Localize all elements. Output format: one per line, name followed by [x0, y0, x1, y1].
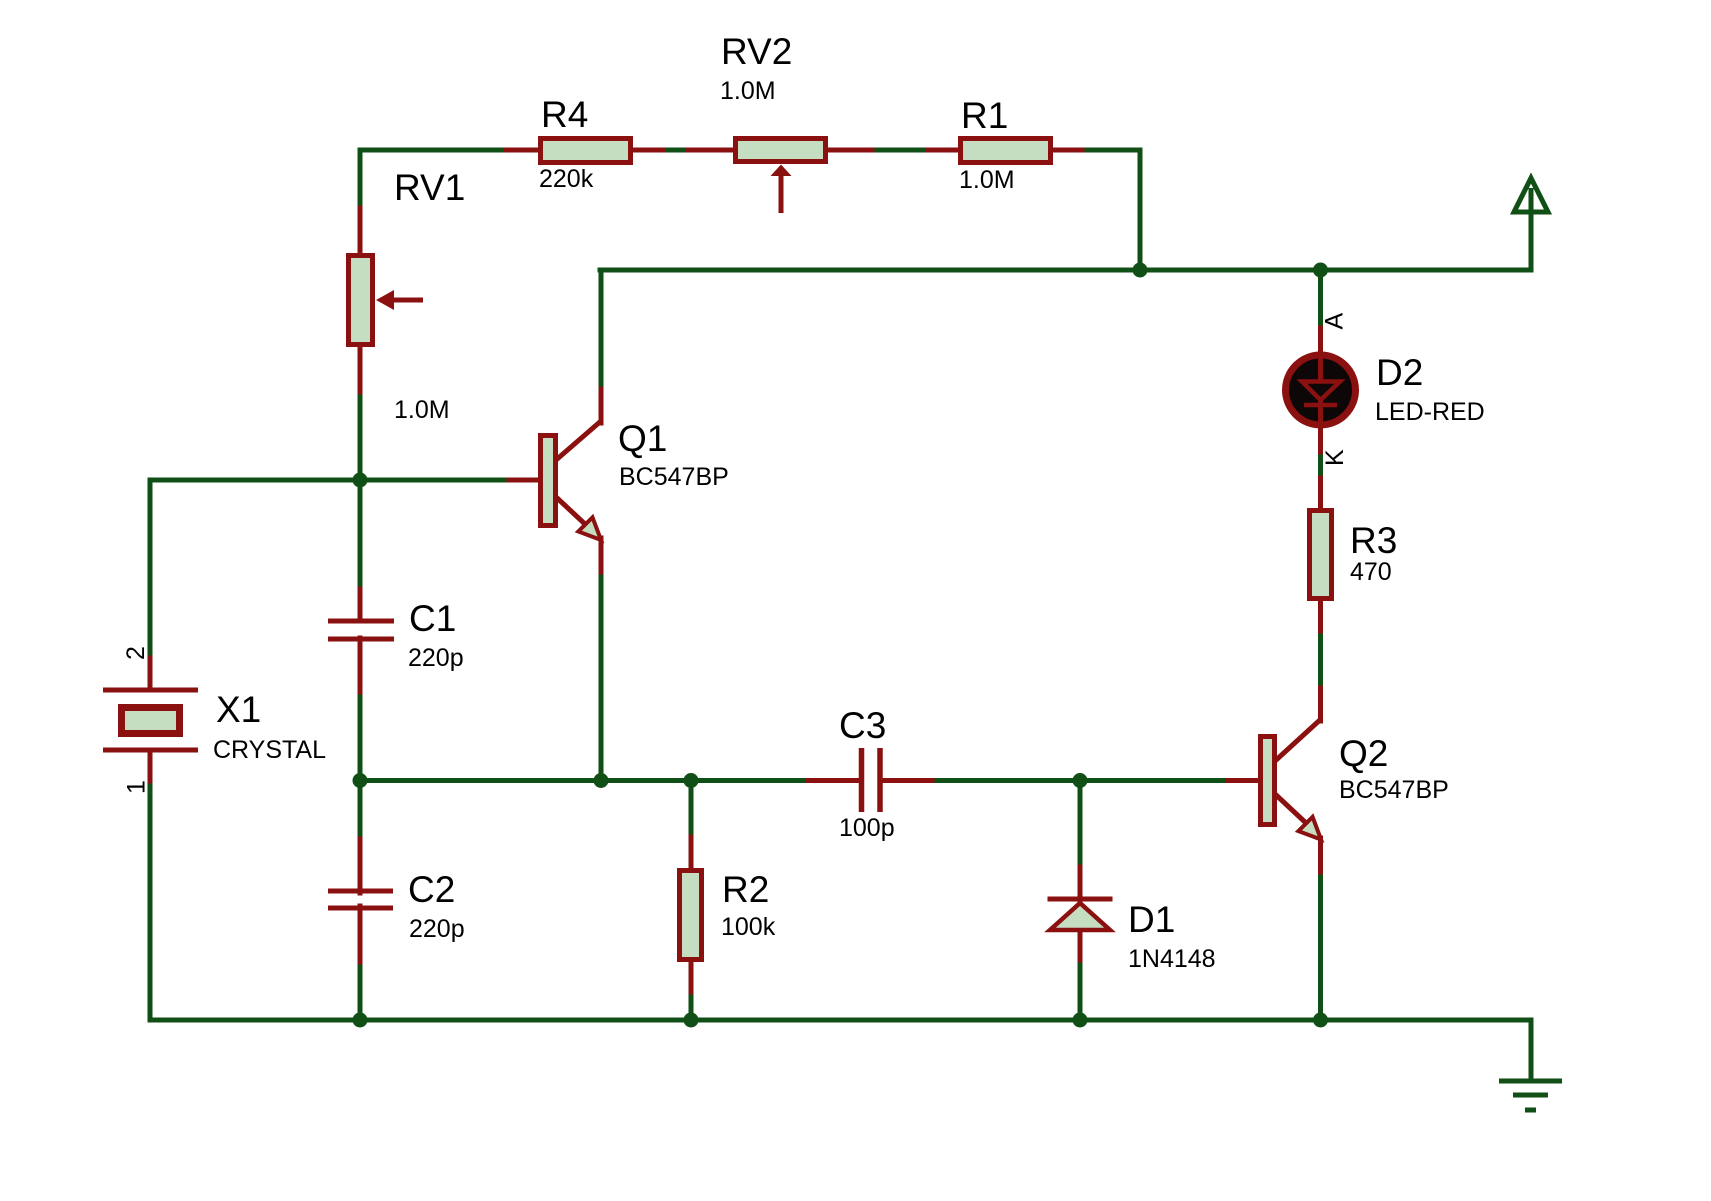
transistor Q2 [1261, 719, 1322, 840]
svg-text:RV2: RV2 [721, 31, 792, 72]
svg-text:1N4148: 1N4148 [1128, 945, 1216, 973]
labels: names [216, 31, 1423, 940]
pin R4 right [631, 148, 663, 153]
wire Q1 collector column [599, 270, 604, 419]
node D1 top junction [1073, 773, 1088, 788]
svg-text:C3: C3 [839, 705, 886, 746]
pin R2 top [689, 837, 694, 872]
node C1 bottom junction [353, 773, 368, 788]
wire base rail [150, 478, 539, 483]
pin RV1 top [358, 208, 363, 257]
svg-text:100k: 100k [721, 913, 776, 941]
svg-text:C1: C1 [409, 598, 456, 639]
wire R3 to Q2 [1318, 601, 1323, 717]
pin D2 cathode / R3 top [1318, 424, 1323, 452]
ground symbol [1499, 1081, 1562, 1110]
pin Q2 emitter stub [1318, 838, 1323, 872]
pin R1 right [1051, 148, 1082, 153]
wire LED top [1318, 270, 1323, 354]
node Q2 emitter junction [1313, 1013, 1328, 1028]
node D1 bottom junction [1073, 1013, 1088, 1028]
LED D2 [1286, 354, 1356, 426]
wire X1 column lower [148, 779, 153, 1020]
wire Q2 emitter column [1318, 839, 1323, 1020]
wire R1 drop [1138, 150, 1143, 270]
wire X1 column upper [148, 480, 153, 660]
svg-text:1: 1 [123, 780, 151, 794]
pin R3 bottom [1318, 599, 1323, 631]
wire R2 column [689, 780, 694, 1020]
wire Q1 emitter column [599, 540, 604, 780]
crystal X1 [103, 690, 198, 750]
wire C1 C2 column upper [358, 480, 363, 619]
pin R1 left [928, 148, 962, 153]
node LED top junction [1313, 263, 1328, 278]
svg-text:BC547BP: BC547BP [1339, 776, 1449, 804]
labels: values [213, 77, 1485, 973]
svg-text:K: K [1321, 449, 1349, 466]
resistor R2 [680, 871, 702, 960]
svg-text:R4: R4 [541, 94, 588, 135]
capacitor C1 [328, 621, 394, 639]
red pin stubs [150, 150, 1321, 992]
wire second rail [600, 268, 1531, 273]
wire LED to R3 [1318, 426, 1323, 508]
wire power stem [1529, 190, 1534, 270]
node C2 bottom junction [353, 1013, 368, 1028]
pin Q1 base [509, 478, 540, 483]
svg-text:BC547BP: BC547BP [619, 463, 729, 491]
wire RV1 column [358, 150, 363, 480]
svg-text:1.0M: 1.0M [394, 396, 450, 424]
wire C1 C2 column lower [358, 910, 363, 1020]
pin C2 top [358, 839, 363, 893]
svg-text:2: 2 [122, 646, 150, 660]
pin D1 top [1078, 867, 1083, 902]
svg-text:R3: R3 [1350, 520, 1397, 561]
pin RV2 left [688, 148, 737, 153]
svg-text:100p: 100p [839, 814, 895, 842]
node RV1/base junction [353, 473, 368, 488]
svg-text:1.0M: 1.0M [720, 77, 776, 105]
potentiometer RV2 [736, 139, 826, 214]
wire D1 column [1078, 780, 1083, 1020]
pin X1 bottom [148, 750, 153, 781]
wire C1 C2 column middle [358, 641, 363, 889]
potentiometer RV1 [349, 256, 424, 345]
node R2 bottom junction [684, 1013, 699, 1028]
resistor R4 [541, 139, 631, 163]
pin RV2 right [826, 148, 872, 153]
pin C3 right [880, 778, 932, 783]
power symbol arrow [1514, 178, 1548, 212]
node R2 top junction [684, 773, 699, 788]
pin Q2 base [1228, 778, 1260, 783]
pin C1 bottom [358, 638, 363, 692]
svg-text:C2: C2 [408, 869, 455, 910]
svg-text:220p: 220p [408, 644, 464, 672]
svg-text:X1: X1 [216, 689, 261, 730]
pin C3 left [808, 778, 861, 783]
resistor R1 [961, 139, 1051, 163]
capacitor C3 [862, 748, 881, 812]
pin RV1 bottom [358, 345, 363, 392]
transistor Q1 [541, 421, 602, 540]
wire mid rail left [360, 778, 858, 783]
svg-text:D2: D2 [1376, 352, 1423, 393]
svg-text:R1: R1 [961, 95, 1008, 136]
svg-text:R2: R2 [722, 869, 769, 910]
pin D2 anode [1318, 328, 1323, 356]
capacitor C2 [328, 891, 393, 908]
svg-text:LED-RED: LED-RED [1375, 398, 1485, 426]
svg-text:Q1: Q1 [618, 418, 667, 459]
wire top rail [360, 148, 1140, 153]
wire ground stem [1529, 1020, 1534, 1081]
svg-text:CRYSTAL: CRYSTAL [213, 736, 326, 764]
pin Q1 emitter stub [599, 538, 604, 572]
svg-text:470: 470 [1350, 558, 1392, 586]
svg-text:1.0M: 1.0M [959, 166, 1015, 194]
svg-text:220p: 220p [409, 915, 465, 943]
wire mid rail right [883, 778, 1258, 783]
pin X1 top [148, 658, 153, 690]
pin R2 bottom [689, 960, 694, 992]
svg-text:RV1: RV1 [394, 167, 465, 208]
svg-text:220k: 220k [539, 165, 594, 193]
svg-text:A: A [1321, 313, 1349, 330]
wire bottom rail [150, 1018, 1531, 1023]
pin Q1 collector stub [599, 389, 604, 423]
pin R4 left [506, 148, 540, 153]
pin C2 bottom [358, 906, 363, 962]
node Q1 emitter junction [594, 773, 609, 788]
resistor R3 [1310, 511, 1332, 599]
pin Q2 collector stub [1318, 688, 1323, 721]
diode D1 [1048, 899, 1113, 930]
pin D1 bottom [1078, 928, 1083, 960]
svg-text:Q2: Q2 [1339, 733, 1388, 774]
svg-text:D1: D1 [1128, 899, 1175, 940]
node R1 drop junction [1133, 263, 1148, 278]
pin C1 top [358, 589, 363, 621]
